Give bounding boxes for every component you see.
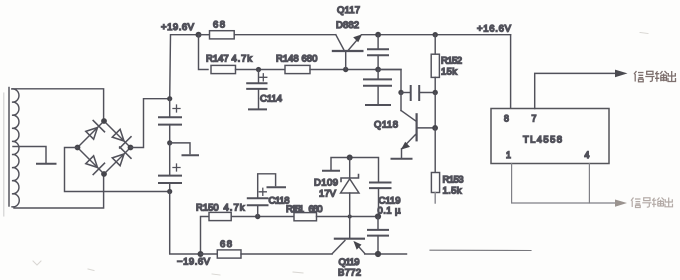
node Q117 base [343,67,348,72]
node bridge bottom [101,171,107,177]
resistor 68 (top) [199,20,235,39]
wire bottom tap to bridge bottom [14,177,104,208]
label 信号输出 (top) [634,71,676,82]
node Q118 base [432,125,438,131]
svg-text:Q119: Q119 [339,257,360,268]
capacitor C119 0.1u [370,183,401,217]
svg-text:0.1 µ: 0.1 µ [378,206,402,217]
wire R148 to Q117 base node to cap node [310,69,401,71]
paper artifacts [33,33,648,276]
node bridge top [101,118,107,124]
svg-text:17V: 17V [319,189,337,200]
node emitter rail [375,32,381,38]
svg-text:C114: C114 [260,94,282,105]
node R152 top [433,32,438,37]
ground C114 [249,108,266,110]
node bridge left [75,145,81,151]
capacitor (rail to mid node) [368,35,388,70]
zener D109 17V [314,158,359,217]
node C119 bottom [375,213,381,219]
node D109 top [347,155,353,161]
wire +19.6V node down to R147 [199,35,209,70]
node bus mid [167,140,172,145]
arrow signal output [615,70,628,78]
svg-text:B772: B772 [338,268,361,279]
capacitor Q118 feedback [401,86,435,100]
node Q118 collector top [398,90,403,95]
wire +16.6V rail corner to IC pin 8 [510,35,512,109]
svg-text:D882: D882 [336,20,359,31]
node bus bottom [167,189,172,194]
ground center tap [37,163,56,165]
svg-text:7: 7 [532,114,537,124]
node bottom rail [375,251,381,257]
bridge edge wires [78,121,131,174]
wire R147 to C114 node to R148 [236,69,286,71]
transformer T winding [12,89,19,207]
node zener line [348,215,352,219]
svg-text:1: 1 [506,150,511,160]
resistor R147 4.7k [206,54,252,74]
wire 68 to Q117 collector [234,34,336,36]
wire IC pin 4 down [588,164,590,204]
diode D-LR (bridge lower-right) [112,147,131,166]
svg-text:4: 4 [585,150,590,160]
wire R151 to zener line to C119 node [317,216,379,218]
svg-text:680: 680 [309,204,323,215]
wire bus to -19.6V rail [170,192,201,255]
svg-text:4.7k: 4.7k [232,54,253,65]
node C118 [255,214,260,219]
resistor R150 4.7k [196,203,245,255]
ground C118 [268,186,286,188]
node -19.6V [198,251,204,257]
wire bridge right node to +bus top [131,99,170,148]
svg-text:R150: R150 [196,203,219,214]
capacitor filter upper (+) [159,99,181,143]
node cap right [433,90,438,95]
node bridge right [128,145,134,151]
transformer T core [4,88,9,217]
svg-text:R153: R153 [443,175,464,186]
svg-text:R148: R148 [276,54,299,65]
wire bus mid to ground [170,143,190,154]
svg-text:68: 68 [220,239,232,250]
wire stray segment [430,249,531,251]
wire center tap [13,147,46,163]
ground D109 [323,170,339,172]
wire Q117 emitter to +16.6V rail [361,34,510,36]
ground filter midpoint [183,154,199,156]
svg-text:−19.6V: −19.6V [177,257,211,268]
svg-text:R151: R151 [286,204,304,215]
resistor 68 (bottom) [201,239,242,258]
wire top tap to bridge top [12,89,104,118]
resistor R148 680 [276,54,317,74]
svg-text:8: 8 [504,114,509,124]
resistor R152 15k [431,35,462,93]
svg-text:Q118: Q118 [374,120,398,131]
node bus top [167,96,172,101]
capacitor filter lower (+) [159,143,181,192]
svg-text:+16.6V: +16.6V [477,24,512,35]
capacitor C114 (+) [247,70,282,109]
svg-text:15k: 15k [441,67,457,78]
transistor Q119 [332,217,365,279]
wire R150 to C118 node to R151 [231,216,294,218]
wire cap node to Q118 collector branch [378,70,401,93]
wire IC pin 1 down [512,164,616,204]
wire +19.6V rail from bus [170,35,199,99]
transistor Q117 [333,5,363,70]
wire bridge left node to -bus [65,148,170,192]
ground cap chain [366,104,390,106]
label lower output (faint) [631,198,673,208]
capacitor (C119 node to -rail) [368,217,388,255]
node +19.6V [196,32,202,38]
capacitor C118 (+) [248,174,290,217]
diode D-UL (bridge upper-left) [86,121,105,140]
svg-text:+19.6V: +19.6V [161,22,195,33]
wire IC pin 7 to signal output arrow [535,73,616,108]
svg-text:Q117: Q117 [337,5,360,16]
svg-text:R147: R147 [206,54,229,65]
svg-text:1.5k: 1.5k [443,186,462,197]
svg-text:R152: R152 [441,56,462,67]
ground Q118 emitter [392,158,412,160]
svg-text:4.7k: 4.7k [224,203,245,214]
resistor R153 1.5k [431,173,463,204]
wire base node down to R153 [434,128,436,173]
wire Q119 emitter to node [365,253,407,255]
diode D-LL (bridge lower-left) [86,156,105,175]
arrow lower output [615,200,627,207]
op-amp U1 TL4558 [491,109,609,164]
wire 68 to Q119 collector [241,253,332,255]
node cap chain [375,67,381,73]
svg-text:68: 68 [213,20,225,31]
transistor Q118 [374,93,435,158]
resistor R151 680 [286,204,323,221]
svg-text:680: 680 [302,54,318,65]
capacitor (mid node to ground) [364,70,391,104]
wire R152 bottom to base node [434,93,436,128]
wire D109 top node and ground branch [331,158,379,183]
diode D-UR (bridge upper-right) [112,129,131,148]
svg-text:D109: D109 [314,178,338,189]
node C114 [256,67,261,72]
